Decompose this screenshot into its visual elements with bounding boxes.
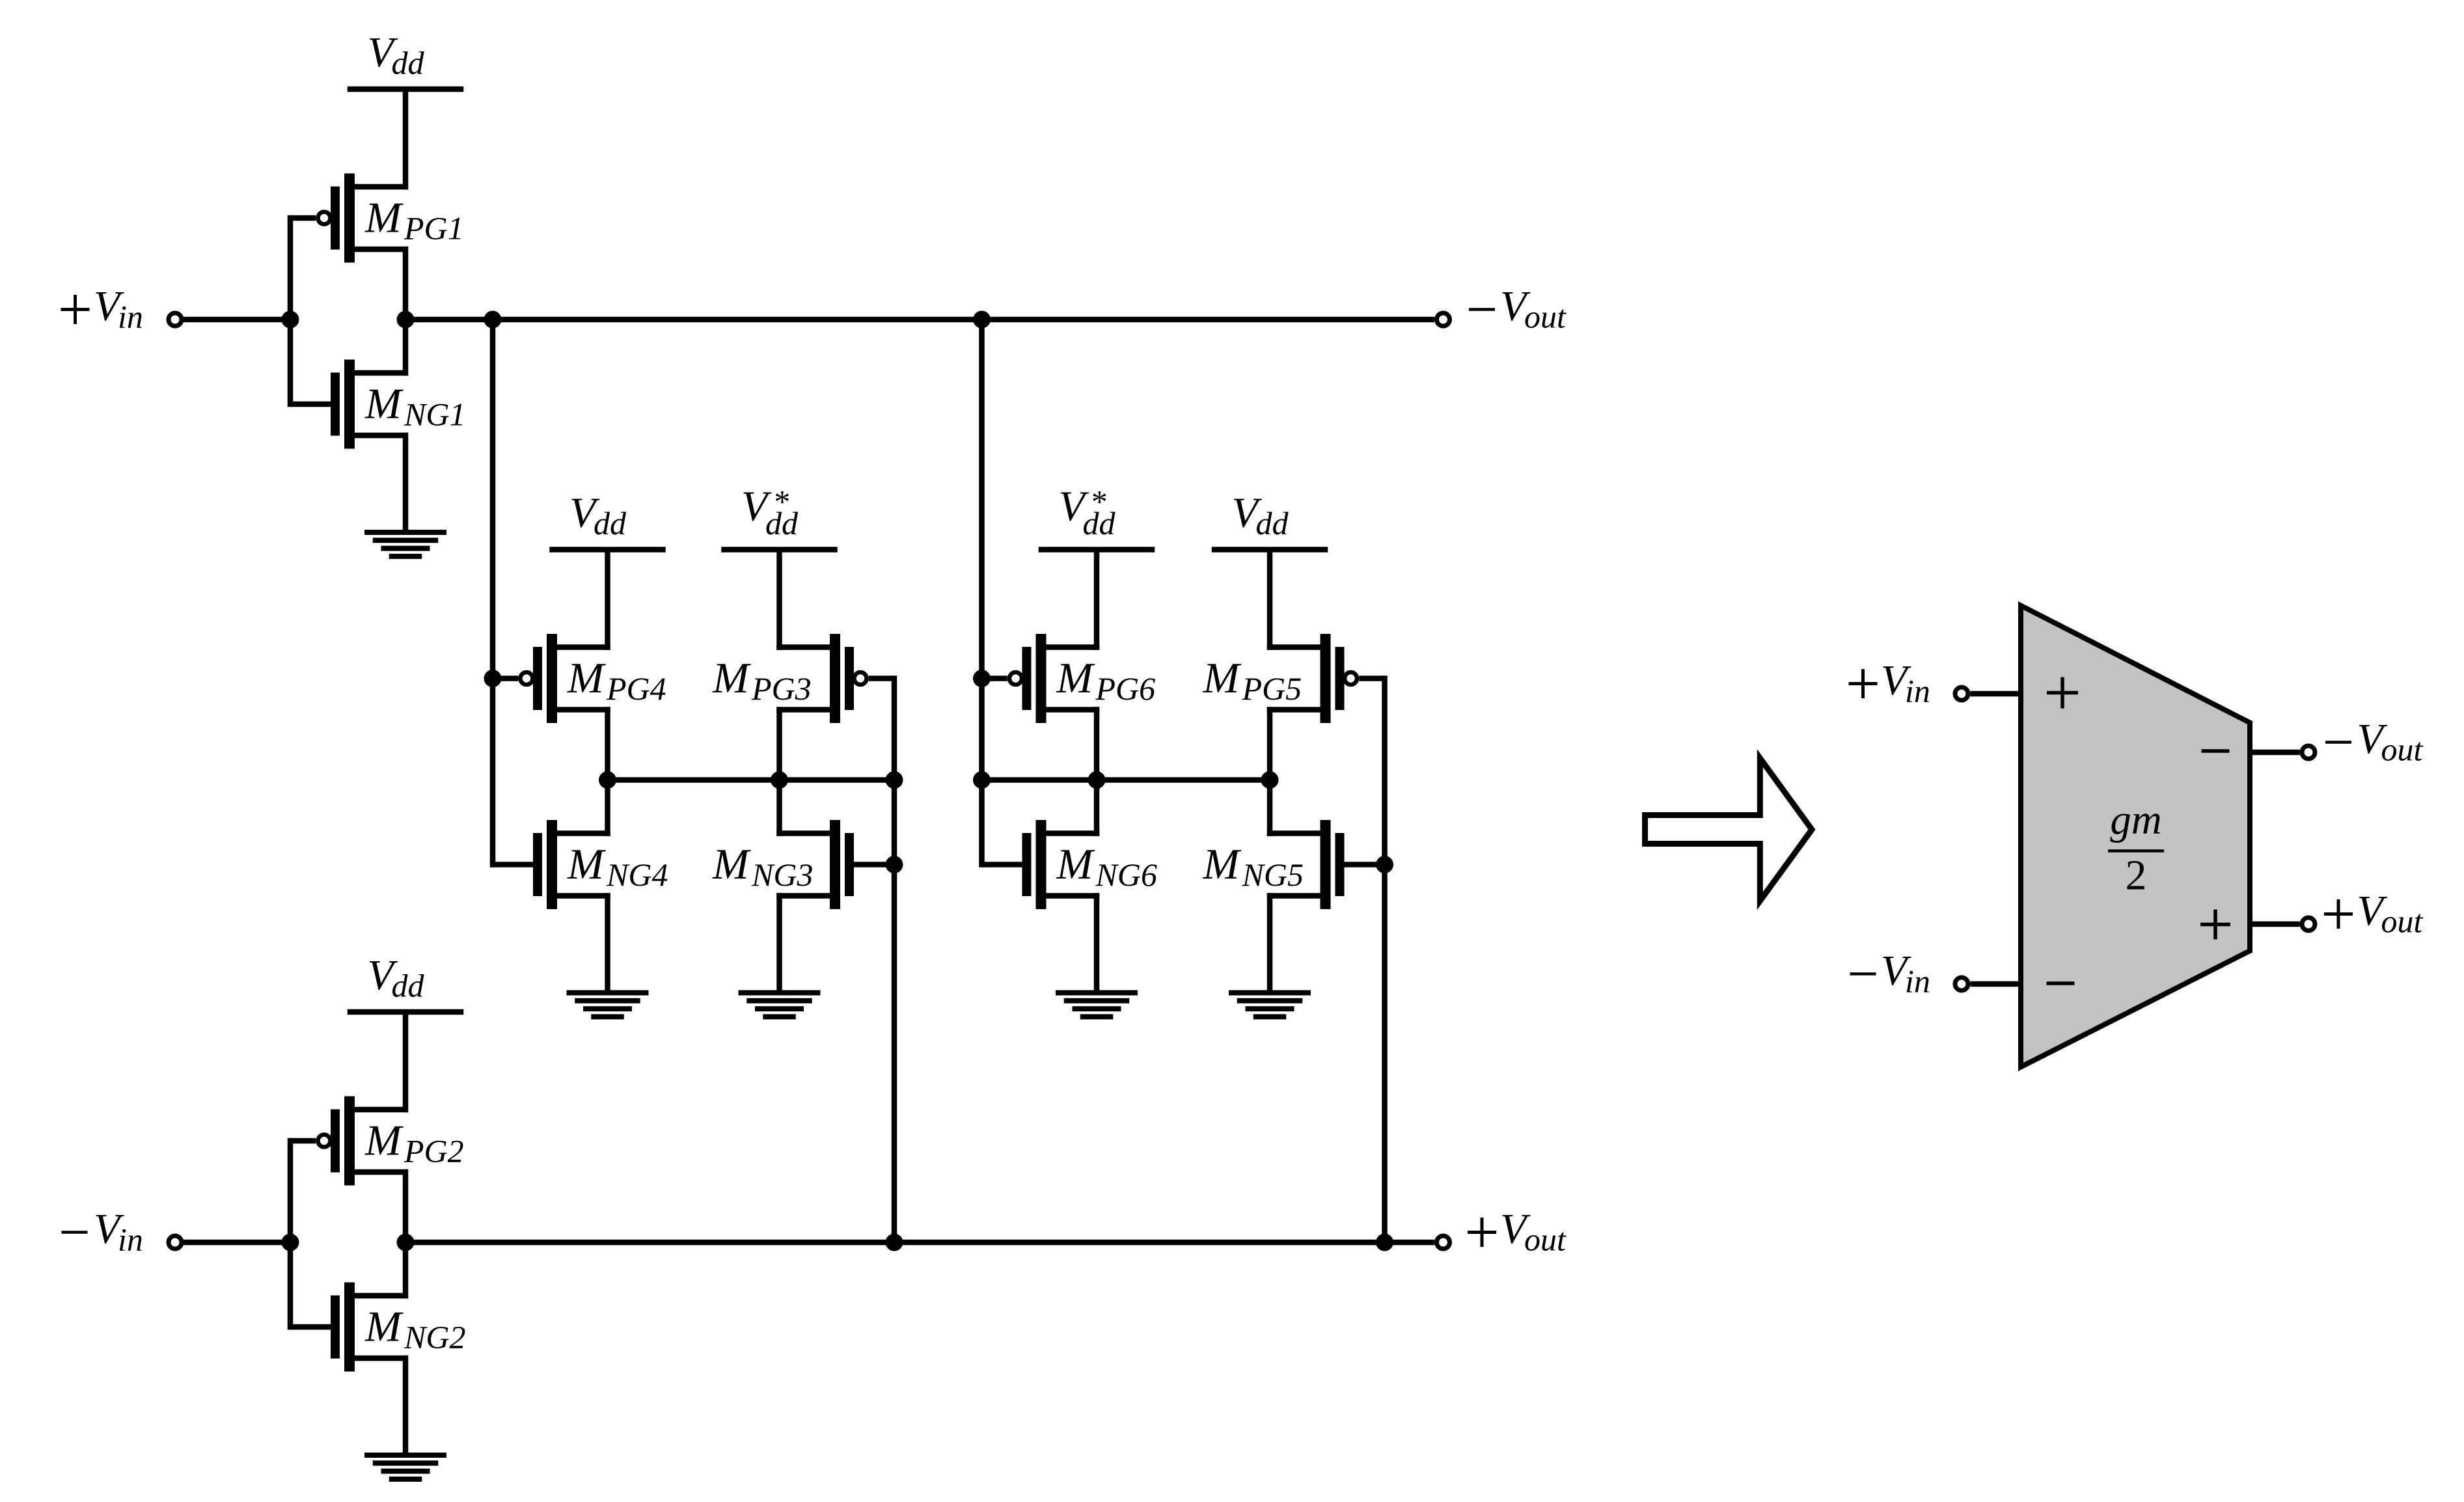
- symbol − output sign: [2202, 749, 2230, 753]
- wire symbol +Vout lead: [2250, 922, 2300, 927]
- junction Inv5 output node: [1261, 771, 1279, 789]
- svg-text:M: M: [364, 380, 404, 428]
- svg-text:NG5: NG5: [1242, 856, 1304, 893]
- ground (MNG1): [364, 433, 446, 556]
- wire gate vertical MPG2/MNG2: [288, 1138, 294, 1330]
- svg-text:NG1: NG1: [404, 396, 465, 433]
- svg-text:M: M: [712, 840, 751, 888]
- transistor MPG3 (Inv3 PMOS): [712, 634, 894, 723]
- power Vdd* supply (MPG6): [1039, 483, 1155, 650]
- transconductor gm/2 symbol body: [2021, 606, 2250, 1067]
- svg-text:M: M: [1056, 654, 1095, 702]
- svg-text:M: M: [1203, 654, 1242, 702]
- wire node −Vout top rail: [405, 317, 1434, 323]
- terminal symbol −Vin: [1955, 977, 1968, 990]
- ground (MNG2): [364, 1356, 446, 1479]
- svg-text:M: M: [712, 654, 751, 702]
- symbol + input sign: [2047, 677, 2078, 709]
- terminal symbol −Vout: [2302, 746, 2315, 759]
- power Vdd supply (MPG5): [1212, 489, 1328, 650]
- svg-text:in: in: [118, 1222, 143, 1258]
- label −Vout (output right top): [1469, 282, 1567, 335]
- transistor MNG6 (Inv6 NMOS): [982, 820, 1157, 909]
- junction inverter-2 output node: [397, 1234, 415, 1251]
- wire inverter-2 output column: [403, 1169, 409, 1299]
- value label gm/2: [2108, 797, 2164, 899]
- junction Inv4 gate tee: [484, 670, 502, 687]
- label −Vin (input left bottom): [62, 1205, 143, 1258]
- svg-text:PG1: PG1: [404, 210, 464, 247]
- junction bottom rail to Inv3 gates: [886, 1234, 903, 1251]
- svg-text:*: *: [1090, 484, 1106, 520]
- transistor MPG5 (Inv5 PMOS): [1203, 634, 1385, 723]
- svg-text:PG4: PG4: [606, 670, 666, 707]
- wire top rail down to Inv6 gates: [979, 320, 985, 867]
- svg-text:PG2: PG2: [404, 1133, 464, 1169]
- svg-text:M: M: [364, 1117, 404, 1165]
- terminal input −Vin: [169, 1236, 182, 1249]
- wire Inv5 output column: [1267, 707, 1273, 836]
- svg-text:out: out: [1524, 299, 1567, 335]
- ground (MNG3): [739, 893, 821, 1017]
- junction Inv6 output node: [1088, 771, 1106, 789]
- junction top rail to Inv4 gates: [484, 311, 502, 329]
- junction inverter-1 output node: [397, 311, 415, 329]
- svg-text:out: out: [2381, 903, 2424, 940]
- symbol − input sign: [2047, 981, 2075, 985]
- label +Vout (symbol output bottom): [2324, 887, 2424, 940]
- svg-text:dd: dd: [392, 968, 425, 1004]
- junction Inv3 output node: [771, 771, 788, 789]
- wire Inv4/Inv3 outputs tie (left group): [608, 777, 895, 783]
- svg-text:gm: gm: [2110, 797, 2161, 843]
- transistor MPG1 (top-left PMOS): [290, 174, 464, 263]
- junction bottom rail to Inv5 gates: [1376, 1234, 1393, 1251]
- junction MNG3 gate tee: [886, 856, 903, 873]
- junction gate node −Vin: [282, 1234, 299, 1251]
- junction Inv6 gate-output tie: [973, 771, 991, 789]
- wire input +Vin to gate node: [184, 317, 290, 323]
- terminal symbol +Vin: [1955, 687, 1968, 700]
- wire Inv5 gate vertical to +Vout rail: [1382, 676, 1388, 1242]
- wire symbol −Vout lead: [2250, 750, 2300, 756]
- junction Inv6 gate tee: [973, 670, 991, 687]
- svg-text:M: M: [1203, 840, 1242, 888]
- symbol + output sign: [2200, 910, 2230, 940]
- svg-text:out: out: [2381, 731, 2424, 768]
- wire symbol +Vin lead: [1971, 691, 2021, 697]
- junction Inv4 output node: [599, 771, 616, 789]
- wire Inv4 output column: [605, 707, 610, 836]
- ground (MNG6): [1056, 893, 1138, 1017]
- svg-text:out: out: [1524, 1222, 1567, 1258]
- label +Vin (input left top): [61, 282, 143, 335]
- power Vdd supply (MPG2): [348, 951, 464, 1112]
- wire gate vertical MPG1/MNG1: [288, 215, 294, 407]
- junction gate node +Vin: [282, 311, 299, 329]
- block arrow (implements): [1645, 758, 1812, 901]
- svg-text:in: in: [118, 299, 143, 335]
- svg-text:NG2: NG2: [404, 1319, 465, 1356]
- label +Vout (output right bottom): [1468, 1205, 1567, 1258]
- junction Inv3 gate-output tie: [886, 771, 903, 789]
- svg-text:NG4: NG4: [606, 856, 668, 893]
- wire inverter-1 output column: [403, 247, 409, 376]
- terminal output +Vout: [1437, 1236, 1450, 1249]
- svg-text:2: 2: [2126, 852, 2147, 899]
- svg-text:M: M: [567, 654, 606, 702]
- transistor MPG2 (bottom-left PMOS): [290, 1097, 464, 1186]
- ground (MNG4): [567, 893, 649, 1017]
- terminal output −Vout: [1437, 313, 1450, 326]
- wire node +Vout bottom rail: [405, 1240, 1434, 1246]
- power Vdd* supply (MPG3): [721, 483, 838, 650]
- wire input −Vin to gate node: [184, 1240, 290, 1246]
- terminal input +Vin: [169, 313, 182, 326]
- transistor MNG1 (top-left NMOS): [290, 360, 465, 449]
- wire Inv6/Inv5 outputs tie (right group): [982, 777, 1270, 783]
- wire top rail down to Inv4 gates: [490, 320, 496, 867]
- svg-text:dd: dd: [594, 505, 627, 541]
- terminal symbol +Vout: [2302, 918, 2315, 931]
- svg-text:PG3: PG3: [751, 670, 812, 707]
- label +Vin (symbol input top): [1849, 657, 1930, 709]
- svg-text:M: M: [364, 194, 404, 242]
- transistor MNG5 (Inv5 NMOS): [1203, 820, 1385, 909]
- ground (MNG5): [1229, 893, 1311, 1017]
- transistor MNG2 (bottom-left NMOS): [290, 1283, 465, 1372]
- wire Inv6 output column: [1094, 707, 1100, 836]
- wire Inv3 gate vertical to +Vout rail: [892, 676, 897, 1242]
- power Vdd supply (MPG1): [348, 29, 464, 189]
- svg-text:in: in: [1905, 963, 1930, 1000]
- label −Vout (symbol output top): [2325, 715, 2424, 768]
- power Vdd supply (MPG4): [549, 489, 666, 650]
- junction top rail to Inv6 gates: [973, 311, 991, 329]
- svg-text:NG6: NG6: [1095, 856, 1157, 893]
- svg-text:dd: dd: [1256, 505, 1289, 541]
- svg-text:in: in: [1905, 673, 1930, 709]
- svg-text:PG6: PG6: [1095, 670, 1156, 707]
- transistor MPG6 (Inv6 PMOS): [982, 634, 1156, 723]
- wire Inv3 output column: [776, 707, 782, 836]
- transistor MPG4 (Inv4 PMOS): [493, 634, 666, 723]
- transistor MNG3 (Inv3 NMOS): [712, 820, 894, 909]
- wire symbol −Vin lead: [1971, 981, 2021, 987]
- svg-text:M: M: [567, 840, 606, 888]
- svg-text:dd: dd: [392, 45, 425, 81]
- junction MNG5 gate tee: [1376, 856, 1393, 873]
- label −Vin (symbol input bottom): [1850, 947, 1930, 1000]
- svg-text:M: M: [1056, 840, 1095, 888]
- svg-text:PG5: PG5: [1242, 670, 1302, 707]
- transistor MNG4 (Inv4 NMOS): [493, 820, 668, 909]
- svg-text:M: M: [364, 1303, 404, 1351]
- svg-text:NG3: NG3: [751, 856, 813, 893]
- svg-text:*: *: [773, 484, 789, 520]
